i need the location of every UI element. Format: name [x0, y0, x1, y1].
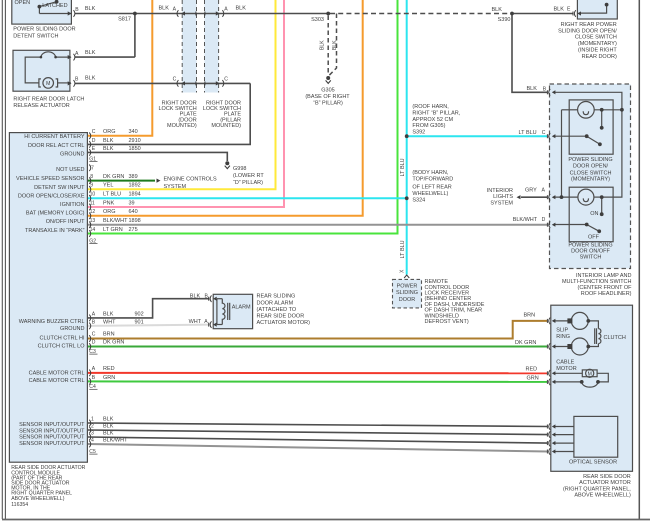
svg-text:ENGINE CONTROLS: ENGINE CONTROLS: [164, 177, 218, 183]
svg-text:YEL: YEL: [103, 183, 113, 189]
svg-text:BLK: BLK: [332, 40, 338, 50]
svg-text:DK GRN: DK GRN: [103, 174, 124, 180]
svg-text:OPEN: OPEN: [15, 0, 31, 6]
svg-text:ACTUATOR MOTOR): ACTUATOR MOTOR): [257, 320, 311, 326]
svg-text:BAT (MEMORY LOGIC): BAT (MEMORY LOGIC): [26, 211, 85, 217]
svg-text:BLK: BLK: [554, 7, 565, 13]
svg-text:C: C: [224, 77, 228, 83]
svg-text:DK GRN: DK GRN: [103, 340, 124, 346]
svg-text:“D” PILLAR): “D” PILLAR): [233, 180, 263, 186]
svg-text:APPROX 52 CM: APPROX 52 CM: [412, 117, 453, 123]
svg-text:LT BLU: LT BLU: [519, 130, 537, 136]
svg-text:D: D: [92, 340, 96, 346]
svg-text:WHT: WHT: [103, 319, 116, 325]
svg-text:G998: G998: [233, 166, 246, 172]
svg-text:1898: 1898: [129, 218, 141, 224]
svg-text:RELEASE ACTUATOR: RELEASE ACTUATOR: [13, 103, 69, 109]
svg-text:S303: S303: [311, 17, 324, 23]
svg-text:BLK: BLK: [492, 7, 503, 13]
svg-text:LATCHED: LATCHED: [42, 3, 67, 9]
svg-text:D: D: [92, 138, 96, 144]
svg-text:LIGHTS: LIGHTS: [493, 194, 513, 200]
svg-text:S324: S324: [412, 198, 425, 204]
svg-text:2910: 2910: [129, 138, 141, 144]
svg-text:BLK/WHT: BLK/WHT: [103, 218, 128, 224]
svg-text:39: 39: [129, 200, 135, 206]
svg-text:DOOR ALARM: DOOR ALARM: [257, 300, 294, 306]
svg-text:S817: S817: [118, 17, 131, 23]
svg-text:MOUNTED): MOUNTED): [167, 123, 197, 129]
svg-text:BLK: BLK: [103, 146, 114, 152]
svg-text:C: C: [173, 77, 177, 83]
svg-text:1: 1: [91, 416, 94, 422]
svg-text:ORG: ORG: [103, 209, 116, 215]
svg-text:S392: S392: [412, 130, 425, 136]
svg-text:(BODY HARN,: (BODY HARN,: [412, 170, 448, 176]
svg-text:BLK: BLK: [103, 416, 114, 422]
svg-text:13: 13: [90, 218, 96, 224]
svg-text:RING: RING: [556, 334, 570, 340]
svg-text:7: 7: [91, 166, 94, 172]
svg-text:CABLE: CABLE: [556, 360, 574, 366]
svg-text:SLIDING: SLIDING: [396, 290, 418, 296]
svg-text:BLK: BLK: [85, 50, 96, 56]
svg-text:BRN: BRN: [103, 332, 115, 338]
svg-text:3: 3: [91, 430, 94, 436]
svg-text:DOOR OPEN/CLOSE/RXE: DOOR OPEN/CLOSE/RXE: [18, 194, 85, 200]
svg-text:TRANSAXLE IN “PARK”: TRANSAXLE IN “PARK”: [25, 228, 85, 234]
svg-text:BLK: BLK: [103, 423, 114, 429]
svg-text:A: A: [542, 188, 546, 194]
svg-text:C: C: [542, 130, 546, 136]
svg-text:M: M: [588, 372, 592, 378]
svg-text:275: 275: [129, 227, 138, 233]
svg-text:RED: RED: [526, 367, 538, 373]
svg-text:902: 902: [135, 311, 144, 317]
svg-text:14: 14: [90, 227, 96, 233]
svg-text:4: 4: [91, 437, 94, 443]
svg-text:PNK: PNK: [103, 200, 115, 206]
svg-text:DETENT SWITCH: DETENT SWITCH: [13, 33, 58, 39]
svg-text:REAR SLIDING: REAR SLIDING: [257, 294, 296, 300]
svg-text:WHT: WHT: [189, 319, 202, 325]
svg-text:ON: ON: [590, 211, 598, 217]
svg-text:BLK: BLK: [320, 40, 326, 50]
svg-text:INTERIOR: INTERIOR: [487, 188, 513, 194]
svg-text:(INSIDE RIGHT: (INSIDE RIGHT: [578, 47, 617, 53]
svg-text:SYSTEM: SYSTEM: [164, 184, 187, 190]
svg-text:POWER SLIDING DOOR: POWER SLIDING DOOR: [13, 26, 75, 32]
svg-text:SLIP: SLIP: [556, 328, 568, 334]
svg-text:ON/OFF INPUT: ON/OFF INPUT: [46, 219, 85, 225]
svg-text:11: 11: [90, 200, 95, 206]
svg-text:B: B: [92, 375, 96, 381]
svg-text:OF LEFT REAR: OF LEFT REAR: [412, 184, 451, 190]
svg-text:GRY: GRY: [525, 188, 537, 194]
svg-text:MOTOR: MOTOR: [556, 366, 576, 372]
svg-text:BLK/WHT: BLK/WHT: [513, 217, 538, 223]
svg-text:(BASE OF RIGHT: (BASE OF RIGHT: [305, 94, 350, 100]
svg-text:A: A: [92, 366, 96, 372]
svg-text:DETENT SW INPUT: DETENT SW INPUT: [34, 185, 85, 191]
svg-text:RIGHT “B” PILLAR,: RIGHT “B” PILLAR,: [412, 111, 460, 117]
svg-text:E: E: [92, 146, 96, 152]
svg-text:SENSOR INPUT/OUTPUT: SENSOR INPUT/OUTPUT: [19, 441, 85, 447]
svg-text:G305: G305: [321, 88, 334, 94]
svg-text:POWER SLIDING: POWER SLIDING: [568, 157, 612, 163]
svg-text:FROM G305): FROM G305): [412, 123, 445, 129]
svg-text:B: B: [543, 86, 547, 92]
svg-text:C: C: [92, 129, 96, 135]
svg-text:ABOVE WHEELWELL): ABOVE WHEELWELL): [574, 492, 631, 498]
svg-text:RED: RED: [103, 366, 115, 372]
svg-text:BRN: BRN: [524, 312, 536, 318]
svg-text:116354: 116354: [11, 502, 28, 508]
svg-text:“B” PILLAR): “B” PILLAR): [313, 101, 343, 107]
svg-text:RIGHT REAR DOOR LATCH: RIGHT REAR DOOR LATCH: [13, 96, 84, 102]
svg-text:B: B: [92, 319, 96, 325]
svg-text:MOUNTED): MOUNTED): [211, 123, 241, 129]
svg-text:BLK/WHT: BLK/WHT: [103, 437, 128, 443]
svg-text:CLUTCH: CLUTCH: [604, 335, 626, 341]
svg-text:1850: 1850: [129, 146, 141, 152]
svg-text:HI CURRENT BATTERY: HI CURRENT BATTERY: [24, 134, 85, 140]
svg-text:BLK: BLK: [103, 311, 114, 317]
svg-text:POWER: POWER: [397, 283, 418, 289]
svg-text:S390: S390: [498, 17, 511, 23]
svg-text:(ROOF HARN,: (ROOF HARN,: [412, 104, 449, 110]
svg-text:A: A: [92, 311, 96, 317]
svg-text:BLK: BLK: [159, 6, 170, 12]
svg-text:NOT USED: NOT USED: [56, 167, 84, 173]
svg-text:BLK: BLK: [85, 6, 96, 12]
svg-text:GRN: GRN: [103, 375, 115, 381]
svg-text:DEFROST VENT): DEFROST VENT): [425, 319, 469, 325]
svg-text:(LOWER RT: (LOWER RT: [233, 173, 264, 179]
svg-text:340: 340: [129, 129, 138, 135]
svg-text:OPTICAL SENSOR: OPTICAL SENSOR: [569, 460, 617, 466]
svg-text:12: 12: [90, 209, 96, 215]
svg-text:LT BLU: LT BLU: [103, 192, 121, 198]
svg-text:GROUND: GROUND: [60, 326, 84, 332]
svg-text:ALARM: ALARM: [232, 304, 251, 310]
svg-text:GRN: GRN: [527, 375, 539, 381]
svg-text:DK GRN: DK GRN: [515, 340, 536, 346]
svg-text:TOP/FORWARD: TOP/FORWARD: [412, 177, 453, 183]
svg-text:D: D: [542, 217, 546, 223]
svg-text:BLK: BLK: [103, 138, 114, 144]
svg-text:1894: 1894: [129, 192, 141, 198]
svg-text:BLK: BLK: [236, 6, 247, 12]
svg-text:X: X: [400, 269, 406, 273]
svg-text:B: B: [75, 77, 79, 83]
svg-text:DOOR REL ACT CTRL: DOOR REL ACT CTRL: [28, 143, 85, 149]
svg-text:LT BLU: LT BLU: [400, 240, 406, 258]
svg-text:CABLE MOTOR CTRL: CABLE MOTOR CTRL: [29, 371, 85, 377]
svg-text:CLOSE SWITCH: CLOSE SWITCH: [575, 35, 617, 41]
svg-text:BLK: BLK: [527, 86, 538, 92]
svg-text:1892: 1892: [129, 183, 141, 189]
svg-text:BLK: BLK: [190, 294, 201, 300]
svg-text:BLK: BLK: [85, 76, 96, 82]
svg-text:RIGHT REAR POWER: RIGHT REAR POWER: [561, 22, 617, 28]
svg-text:901: 901: [135, 319, 144, 325]
svg-text:CABLE MOTOR CTRL: CABLE MOTOR CTRL: [29, 378, 85, 384]
svg-text:REAR DOOR): REAR DOOR): [582, 54, 617, 60]
svg-text:(MOMENTARY): (MOMENTARY): [571, 177, 610, 183]
svg-text:SYSTEM: SYSTEM: [490, 201, 513, 207]
svg-text:ABOVE WHEELWELL): ABOVE WHEELWELL): [11, 496, 65, 502]
svg-text:E: E: [567, 6, 571, 12]
svg-text:(MOMENTARY): (MOMENTARY): [578, 41, 617, 47]
svg-text:WHEELWELL): WHEELWELL): [412, 191, 448, 197]
svg-text:CLUTCH CTRL LO: CLUTCH CTRL LO: [38, 344, 86, 350]
svg-text:640: 640: [129, 209, 138, 215]
svg-text:SLIDING DOOR OPEN/: SLIDING DOOR OPEN/: [558, 28, 617, 34]
svg-text:SENSOR INPUT/OUTPUT: SENSOR INPUT/OUTPUT: [19, 422, 85, 428]
svg-text:B: B: [205, 294, 209, 300]
svg-text:A: A: [224, 6, 228, 12]
svg-text:389: 389: [129, 174, 138, 180]
svg-text:REAR SIDE DOOR: REAR SIDE DOOR: [257, 313, 305, 319]
svg-text:M: M: [46, 81, 50, 87]
svg-text:GROUND: GROUND: [60, 152, 84, 158]
svg-text:IGNITION: IGNITION: [60, 202, 84, 208]
svg-text:DOOR: DOOR: [399, 297, 416, 303]
svg-text:OFF: OFF: [588, 235, 600, 241]
svg-text:DOOR OPEN/: DOOR OPEN/: [573, 163, 609, 169]
svg-text:BLK: BLK: [103, 430, 114, 436]
svg-text:ACTUATOR MOTOR: ACTUATOR MOTOR: [579, 480, 631, 486]
svg-text:CLUTCH CTRL HI: CLUTCH CTRL HI: [39, 336, 84, 342]
svg-text:SENSOR INPUT/OUTPUT: SENSOR INPUT/OUTPUT: [19, 434, 85, 440]
svg-text:A: A: [173, 6, 177, 12]
svg-text:(ATTACHED TO: (ATTACHED TO: [257, 307, 297, 313]
svg-text:9: 9: [90, 183, 93, 189]
svg-text:C: C: [92, 332, 96, 338]
svg-text:A: A: [204, 319, 208, 325]
svg-text:WARNING BUZZER CTRL: WARNING BUZZER CTRL: [19, 319, 85, 325]
svg-text:POWER SLIDING: POWER SLIDING: [568, 243, 612, 249]
svg-text:ROOF HEADLINER): ROOF HEADLINER): [581, 291, 632, 297]
svg-text:VEHICLE SPEED SENSOR: VEHICLE SPEED SENSOR: [16, 176, 84, 182]
svg-text:8: 8: [90, 174, 93, 180]
svg-text:B: B: [75, 7, 79, 13]
svg-text:LT BLU: LT BLU: [400, 158, 406, 176]
svg-text:LT GRN: LT GRN: [103, 227, 123, 233]
svg-text:2: 2: [91, 423, 94, 429]
svg-text:MULTI-FUNCTION SWITCH: MULTI-FUNCTION SWITCH: [562, 279, 632, 285]
svg-text:SWITCH: SWITCH: [580, 255, 602, 261]
svg-text:ORG: ORG: [103, 129, 116, 135]
svg-text:A: A: [75, 51, 79, 57]
svg-text:10: 10: [90, 192, 96, 198]
